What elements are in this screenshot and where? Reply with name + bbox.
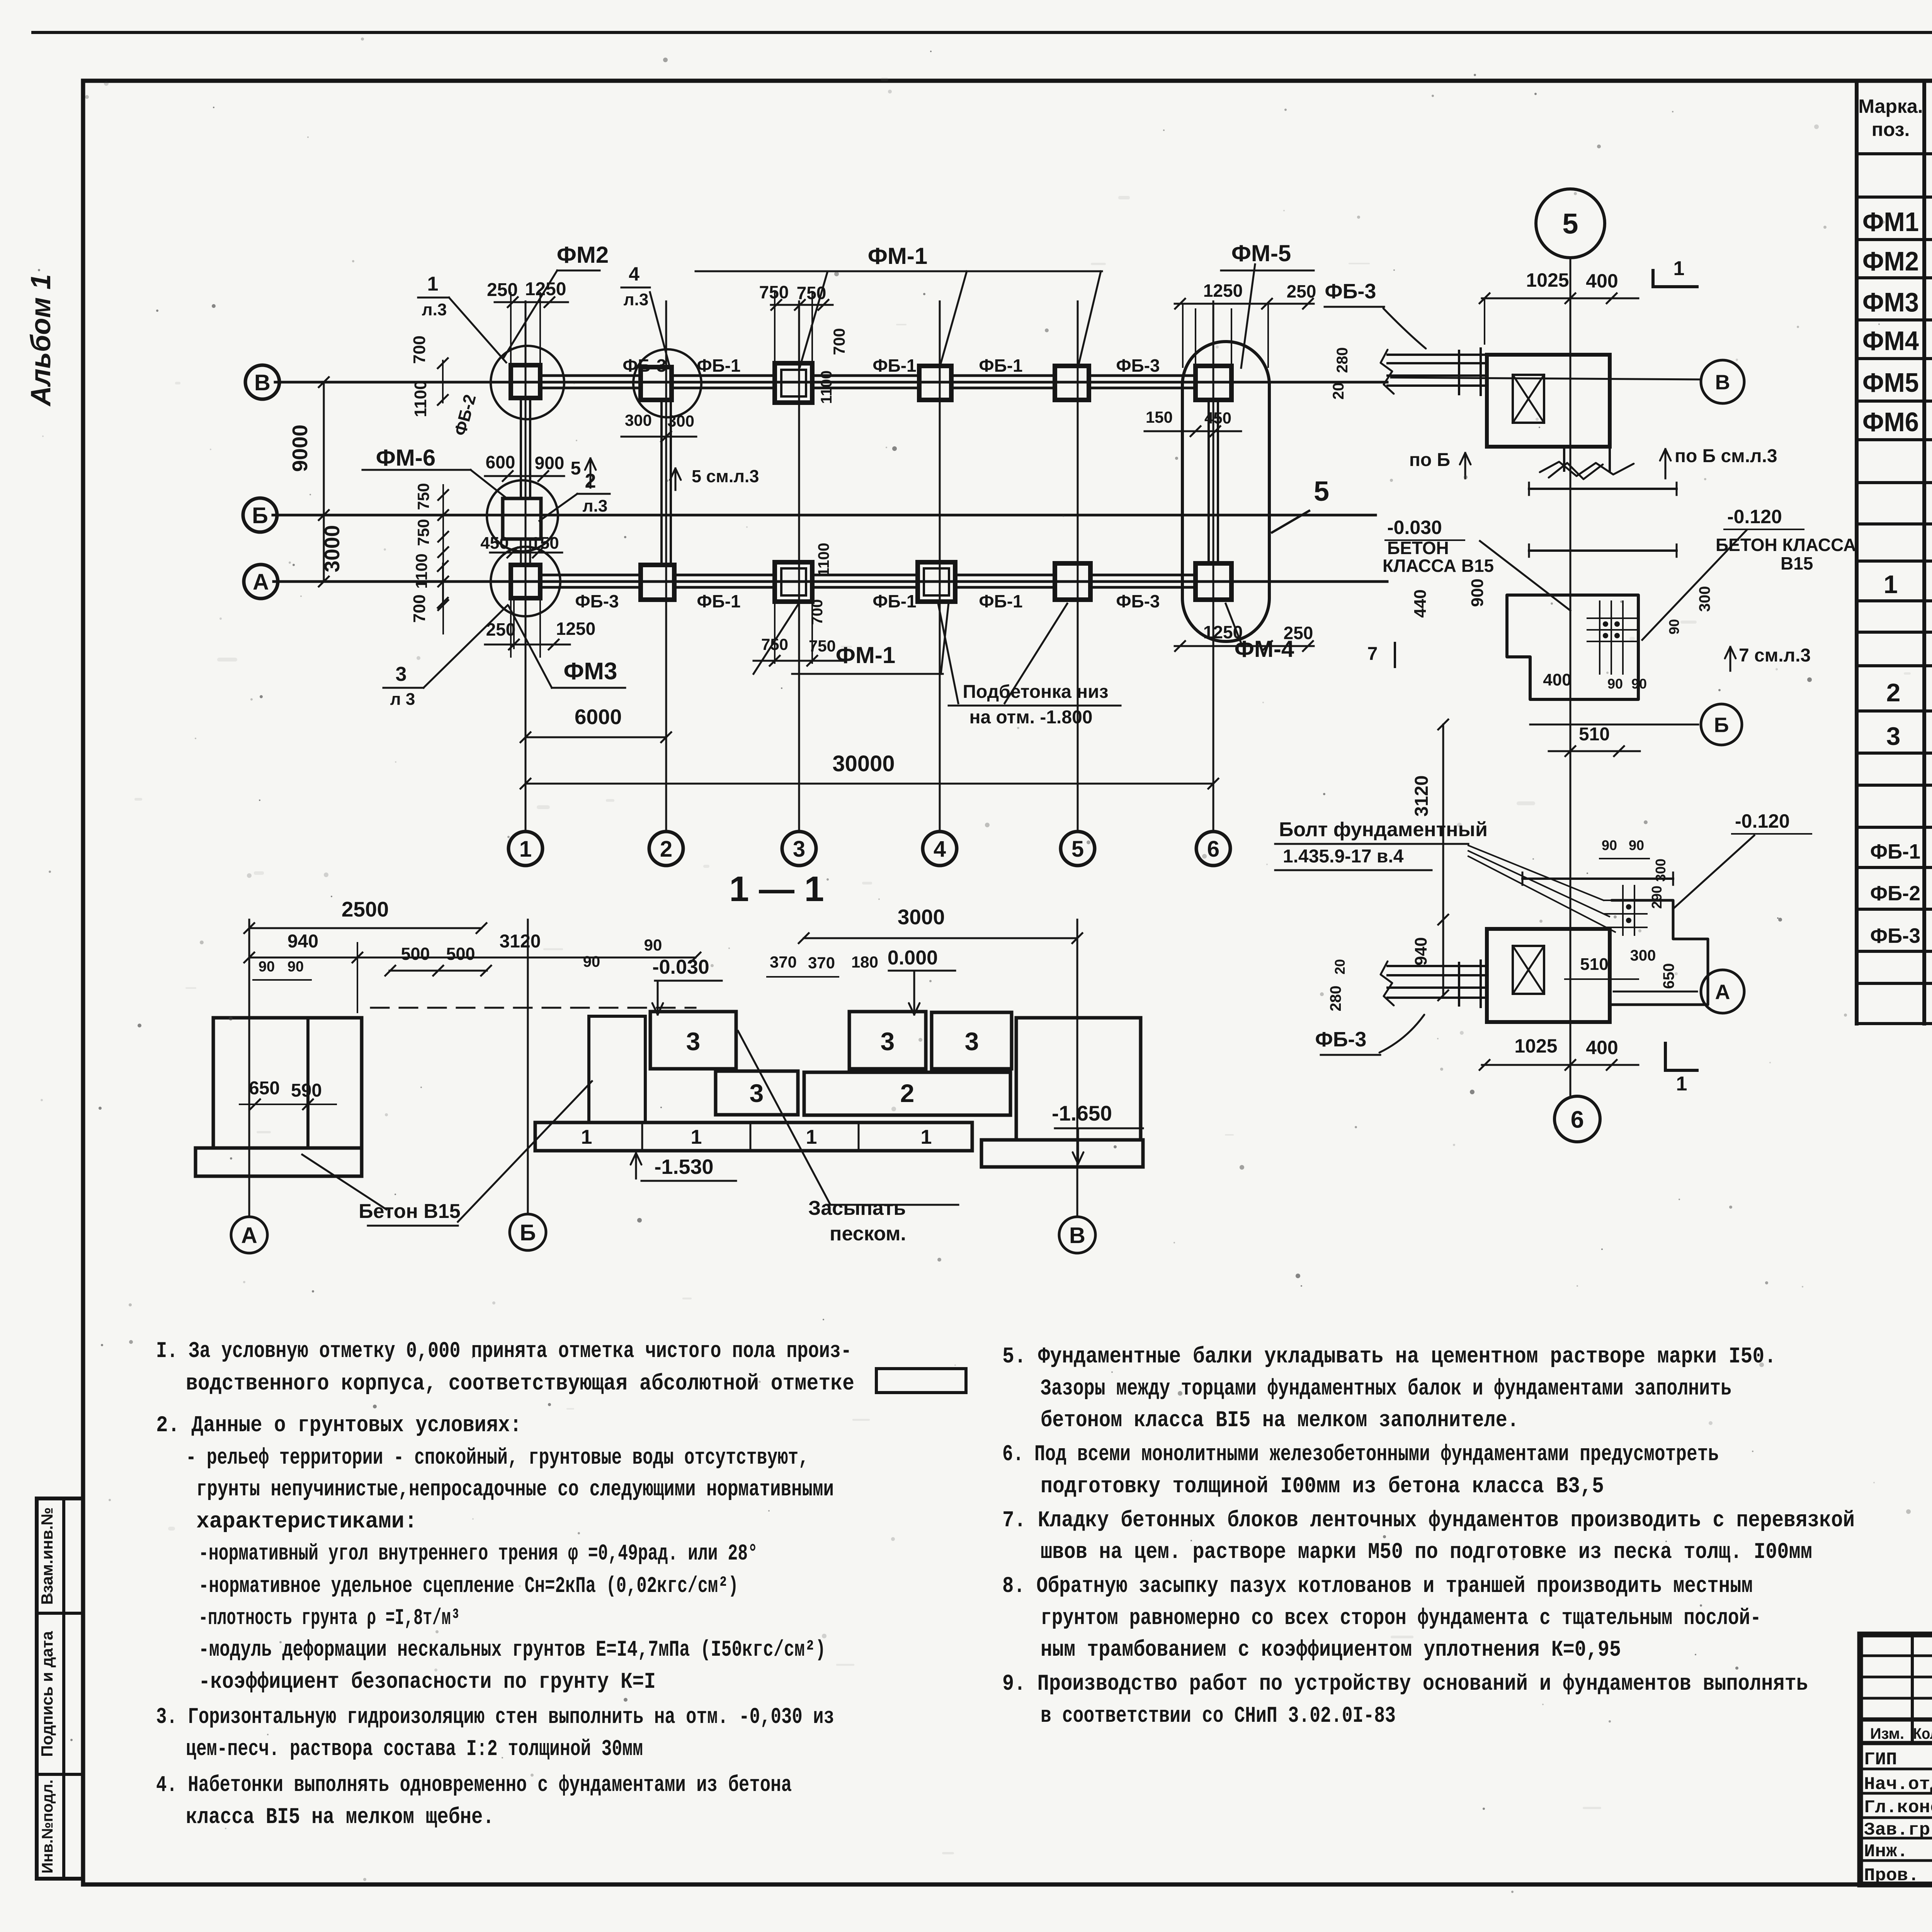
svg-text:7: 7 <box>1367 644 1378 664</box>
svg-text:7. Кладку бетонных блоков лент: 7. Кладку бетонных блоков ленточных фунд… <box>1002 1508 1855 1533</box>
svg-text:4. Набетонки выполнять одновре: 4. Набетонки выполнять одновременно с фу… <box>156 1773 792 1798</box>
svg-text:Б: Б <box>252 503 268 528</box>
svg-text:3120: 3120 <box>500 931 541 952</box>
svg-text:ФБ-1: ФБ-1 <box>872 355 916 376</box>
svg-text:А: А <box>253 570 269 595</box>
svg-text:90: 90 <box>1607 676 1623 692</box>
svg-text:3: 3 <box>686 1027 701 1056</box>
svg-text:750: 750 <box>761 635 788 653</box>
svg-text:90: 90 <box>287 959 304 975</box>
svg-text:700: 700 <box>410 594 429 622</box>
svg-text:песком.: песком. <box>830 1223 906 1245</box>
svg-text:590: 590 <box>291 1080 322 1101</box>
svg-text:2: 2 <box>900 1079 915 1107</box>
svg-text:ФБ-1: ФБ-1 <box>697 355 740 376</box>
svg-text:БЕТОН КЛАССА: БЕТОН КЛАССА <box>1716 535 1856 555</box>
svg-text:водственного корпуса, соответс: водственного корпуса, соответствующая аб… <box>186 1371 854 1396</box>
svg-text:класса ВI5 на мелком щебне.: класса ВI5 на мелком щебне. <box>186 1805 494 1830</box>
svg-text:7 см.л.3: 7 см.л.3 <box>1739 645 1811 666</box>
svg-text:-нормативное удельное сцеплени: -нормативное удельное сцепление Сн=2кПа … <box>199 1574 738 1599</box>
svg-text:1: 1 <box>1673 257 1685 280</box>
svg-text:-0.030: -0.030 <box>652 956 709 978</box>
svg-text:ФБ-3: ФБ-3 <box>575 591 619 611</box>
svg-text:1025: 1025 <box>1514 1035 1557 1057</box>
svg-text:500: 500 <box>401 944 430 964</box>
svg-text:л.3: л.3 <box>583 497 608 515</box>
svg-text:940: 940 <box>1412 937 1430 965</box>
svg-text:700: 700 <box>809 599 826 625</box>
svg-text:по Б см.л.3: по Б см.л.3 <box>1675 446 1777 466</box>
svg-text:А: А <box>241 1223 257 1248</box>
svg-text:ФМ-6: ФМ-6 <box>376 445 436 471</box>
svg-text:В: В <box>1715 371 1730 394</box>
svg-text:поз.: поз. <box>1872 119 1910 140</box>
svg-text:ФМ3: ФМ3 <box>1862 287 1919 317</box>
svg-text:300: 300 <box>667 412 694 430</box>
svg-text:ФБ-3: ФБ-3 <box>1116 591 1160 611</box>
svg-text:Зав.гр.: Зав.гр. <box>1864 1820 1932 1840</box>
svg-text:750: 750 <box>809 637 836 655</box>
svg-text:КЛАССА В15: КЛАССА В15 <box>1383 556 1494 576</box>
svg-text:90: 90 <box>644 936 662 954</box>
svg-text:1: 1 <box>1884 570 1898 599</box>
svg-text:300: 300 <box>1653 859 1668 882</box>
svg-text:3: 3 <box>750 1079 764 1107</box>
svg-text:510: 510 <box>1580 955 1608 974</box>
svg-text:Взам.инв.№: Взам.инв.№ <box>38 1507 56 1605</box>
svg-text:290: 290 <box>1649 886 1665 909</box>
svg-text:1100: 1100 <box>411 380 430 417</box>
svg-text:750: 750 <box>414 519 432 546</box>
svg-text:ФМ-5: ФМ-5 <box>1231 240 1291 266</box>
svg-text:Альбом 1: Альбом 1 <box>26 274 56 406</box>
svg-text:900: 900 <box>1468 578 1487 607</box>
svg-text:по Б: по Б <box>1409 450 1450 470</box>
svg-text:Изм.: Изм. <box>1870 1725 1904 1742</box>
svg-text:5 см.л.3: 5 см.л.3 <box>692 466 759 486</box>
svg-text:1250: 1250 <box>556 619 595 639</box>
svg-text:в соответствии со СНиП 3.02.0I: в соответствии со СНиП 3.02.0I-83 <box>1041 1704 1396 1729</box>
svg-text:6: 6 <box>1571 1106 1584 1133</box>
svg-text:ФБ-3: ФБ-3 <box>1315 1028 1367 1051</box>
svg-text:900: 900 <box>535 453 565 473</box>
svg-text:400: 400 <box>1586 1037 1618 1058</box>
svg-text:Б: Б <box>1714 713 1729 736</box>
svg-text:ФМ4: ФМ4 <box>1862 326 1919 356</box>
svg-text:280: 280 <box>1334 347 1351 373</box>
svg-text:на отм. -1.800: на отм. -1.800 <box>969 707 1093 728</box>
svg-text:3120: 3120 <box>1412 776 1432 817</box>
svg-text:-1.530: -1.530 <box>654 1155 713 1179</box>
svg-text:характеристиками:: характеристиками: <box>196 1509 417 1534</box>
svg-text:швов на цем. растворе марки М5: швов на цем. растворе марки М50 по подго… <box>1041 1540 1812 1565</box>
svg-text:250: 250 <box>487 280 518 300</box>
svg-text:подготовку толщиной I00мм из б: подготовку толщиной I00мм из бетона клас… <box>1041 1474 1604 1499</box>
svg-text:-0.120: -0.120 <box>1727 506 1782 527</box>
svg-text:9. Производство работ по устро: 9. Производство работ по устройству осно… <box>1002 1672 1808 1697</box>
svg-text:250: 250 <box>1287 281 1316 301</box>
svg-text:Б: Б <box>520 1220 536 1245</box>
svg-text:440: 440 <box>1411 589 1430 617</box>
svg-text:500: 500 <box>446 944 475 964</box>
svg-text:цем-песч. раствора состава I:: цем-песч. раствора состава I:2 толщиной … <box>186 1737 643 1762</box>
svg-text:20: 20 <box>1330 383 1347 400</box>
svg-text:ФБ-1: ФБ-1 <box>697 591 740 611</box>
svg-text:3: 3 <box>396 663 407 685</box>
svg-text:В: В <box>254 370 270 395</box>
svg-text:30000: 30000 <box>832 751 895 776</box>
svg-text:5: 5 <box>1071 837 1084 862</box>
svg-text:3: 3 <box>1886 722 1901 750</box>
svg-text:750: 750 <box>759 282 789 302</box>
svg-text:л.3: л.3 <box>624 290 649 309</box>
svg-text:2: 2 <box>660 837 672 862</box>
svg-text:ФБ-3: ФБ-3 <box>622 355 666 376</box>
svg-text:Гл.конс: Гл.конс <box>1864 1798 1932 1818</box>
svg-text:1: 1 <box>921 1126 932 1148</box>
svg-text:л.3: л.3 <box>422 300 447 319</box>
svg-text:бетоном класса ВI5 на мелком з: бетоном класса ВI5 на мелком заполнителе… <box>1041 1408 1519 1433</box>
svg-text:150: 150 <box>1146 408 1173 426</box>
svg-text:3: 3 <box>965 1027 979 1056</box>
svg-text:ФМ1: ФМ1 <box>1862 207 1919 237</box>
svg-text:940: 940 <box>287 931 318 952</box>
svg-text:20: 20 <box>1332 959 1348 975</box>
svg-text:Зазоры между торцами фундамент: Зазоры между торцами фундаментных балок … <box>1041 1376 1731 1401</box>
svg-text:1100: 1100 <box>818 371 835 404</box>
svg-text:90: 90 <box>1666 619 1682 634</box>
svg-text:400: 400 <box>1543 670 1571 689</box>
svg-text:ФБ-1: ФБ-1 <box>979 355 1022 376</box>
svg-text:БЕТОН: БЕТОН <box>1387 538 1449 558</box>
svg-text:л 3: л 3 <box>390 690 415 709</box>
svg-text:1: 1 <box>519 837 532 862</box>
svg-text:- рельеф территории - спокойны: - рельеф территории - спокойный, грунтов… <box>186 1446 809 1471</box>
svg-text:300: 300 <box>1696 586 1713 612</box>
svg-text:370: 370 <box>770 953 797 971</box>
svg-text:750: 750 <box>414 483 432 510</box>
svg-text:90: 90 <box>1629 837 1644 853</box>
svg-text:3000: 3000 <box>898 905 945 929</box>
svg-text:-модуль деформации нескальных: -модуль деформации нескальных грунтов Е=… <box>199 1638 826 1663</box>
svg-text:2. Данные о грунтовых условиях: 2. Данные о грунтовых условиях: <box>156 1413 522 1438</box>
svg-text:6. Под всеми монолитными желез: 6. Под всеми монолитными железобетонными… <box>1002 1442 1719 1467</box>
svg-text:450: 450 <box>1204 409 1231 427</box>
svg-text:6: 6 <box>1207 837 1219 862</box>
svg-text:2: 2 <box>1886 678 1901 707</box>
svg-text:ФБ-1: ФБ-1 <box>1870 840 1920 863</box>
svg-text:90: 90 <box>259 959 275 975</box>
svg-text:ФМ-1: ФМ-1 <box>868 243 928 269</box>
svg-text:-коэффициент безопасности по г: -коэффициент безопасности по грунту К=I <box>199 1670 656 1695</box>
svg-text:650: 650 <box>1660 963 1677 989</box>
svg-text:1250: 1250 <box>1203 281 1243 301</box>
svg-text:-1.650: -1.650 <box>1052 1101 1112 1125</box>
svg-text:ФБ-2: ФБ-2 <box>1870 882 1920 905</box>
svg-text:I. За условную отметку 0,000 п: I. За условную отметку 0,000 принята отм… <box>156 1339 852 1364</box>
svg-text:3000: 3000 <box>320 525 344 572</box>
svg-text:400: 400 <box>1586 270 1618 292</box>
svg-text:ГИП: ГИП <box>1864 1750 1897 1770</box>
svg-text:грунтом равномерно со всех сто: грунтом равномерно со всех сторон фундам… <box>1041 1606 1761 1631</box>
svg-text:1.435.9-17 в.4: 1.435.9-17 в.4 <box>1283 846 1404 867</box>
svg-text:В15: В15 <box>1781 553 1813 573</box>
svg-text:750: 750 <box>797 283 827 303</box>
svg-text:1: 1 <box>1676 1073 1687 1095</box>
svg-text:370: 370 <box>808 954 835 972</box>
svg-text:2500: 2500 <box>342 897 389 921</box>
svg-text:1: 1 <box>806 1126 817 1148</box>
svg-text:3: 3 <box>793 837 805 862</box>
svg-text:700: 700 <box>830 328 848 355</box>
svg-text:1 — 1: 1 — 1 <box>729 869 824 909</box>
svg-text:Пров.: Пров. <box>1864 1866 1919 1886</box>
svg-text:90: 90 <box>1631 676 1647 692</box>
svg-text:Подпись и дата: Подпись и дата <box>38 1631 56 1757</box>
svg-text:ФМ2: ФМ2 <box>1862 246 1919 276</box>
svg-text:450: 450 <box>480 534 509 553</box>
svg-text:1: 1 <box>581 1126 592 1148</box>
svg-text:1: 1 <box>691 1126 702 1148</box>
svg-text:Бетон В15: Бетон В15 <box>359 1200 460 1223</box>
svg-text:4: 4 <box>934 837 946 862</box>
svg-text:90: 90 <box>1602 837 1617 853</box>
svg-text:ФМ6: ФМ6 <box>1862 407 1919 437</box>
svg-text:Инв.№подл.: Инв.№подл. <box>39 1779 56 1873</box>
svg-text:-плотность грунта ρ =I,8т/м³: -плотность грунта ρ =I,8т/м³ <box>199 1606 460 1631</box>
svg-text:5. Фундаментные балки укладыва: 5. Фундаментные балки укладывать на цеме… <box>1002 1344 1776 1369</box>
svg-text:Засыпать: Засыпать <box>808 1197 906 1219</box>
svg-text:5: 5 <box>1562 208 1578 240</box>
svg-text:ФБ-3: ФБ-3 <box>1116 355 1160 376</box>
svg-text:-0.030: -0.030 <box>1387 517 1442 538</box>
svg-text:3: 3 <box>881 1027 895 1056</box>
svg-text:ФМ-4: ФМ-4 <box>1235 636 1294 662</box>
svg-text:510: 510 <box>1579 724 1610 745</box>
svg-text:300: 300 <box>1630 947 1656 964</box>
svg-text:А: А <box>1715 980 1730 1003</box>
svg-text:0.000: 0.000 <box>888 947 938 969</box>
svg-text:300: 300 <box>625 411 652 429</box>
svg-text:650: 650 <box>249 1078 280 1099</box>
svg-text:В: В <box>1069 1223 1085 1248</box>
svg-text:-нормативный угол внутреннего: -нормативный угол внутреннего трения φ =… <box>199 1541 758 1566</box>
svg-text:5: 5 <box>571 458 581 479</box>
svg-text:ФМ3: ФМ3 <box>563 658 617 685</box>
svg-text:Подбетонка низ: Подбетонка низ <box>963 682 1109 702</box>
svg-text:ным трамбованием с коэффициент: ным трамбованием с коэффициентом уплотне… <box>1041 1638 1621 1663</box>
svg-text:150: 150 <box>531 534 559 553</box>
svg-text:700: 700 <box>410 335 429 364</box>
svg-text:ФБ-1: ФБ-1 <box>872 591 916 611</box>
svg-text:1025: 1025 <box>1526 269 1569 291</box>
svg-text:1100: 1100 <box>412 553 430 588</box>
svg-text:6000: 6000 <box>575 705 622 729</box>
svg-text:1100: 1100 <box>815 543 832 577</box>
svg-text:Колич: Колич <box>1913 1725 1932 1742</box>
svg-text:ФБ-3: ФБ-3 <box>1870 924 1920 947</box>
svg-text:1: 1 <box>427 273 439 295</box>
svg-text:Нач.отд: Нач.отд <box>1864 1774 1932 1794</box>
svg-text:180: 180 <box>851 953 878 971</box>
svg-text:Марка.: Марка. <box>1858 95 1923 117</box>
svg-text:грунты непучинистые,непросадоч: грунты непучинистые,непросадочные со сле… <box>196 1477 834 1502</box>
svg-text:4: 4 <box>629 263 639 285</box>
svg-text:90: 90 <box>583 953 600 970</box>
svg-text:5: 5 <box>1314 476 1329 507</box>
svg-text:Болт фундаментный: Болт фундаментный <box>1279 818 1488 841</box>
svg-text:ФБ-1: ФБ-1 <box>979 591 1022 611</box>
svg-text:-0.120: -0.120 <box>1735 810 1790 832</box>
svg-text:ФМ2: ФМ2 <box>557 242 609 268</box>
svg-text:ФМ5: ФМ5 <box>1862 367 1919 398</box>
svg-text:280: 280 <box>1327 986 1344 1012</box>
svg-text:ФБ-3: ФБ-3 <box>1325 280 1376 303</box>
svg-text:600: 600 <box>486 452 515 472</box>
svg-text:8. Обратную засыпку пазух котл: 8. Обратную засыпку пазух котлованов и т… <box>1002 1574 1753 1599</box>
svg-text:9000: 9000 <box>288 425 312 472</box>
svg-text:3. Горизонтальную гидроизоляц: 3. Горизонтальную гидроизоляцию стен вып… <box>156 1705 834 1730</box>
svg-text:Инж.: Инж. <box>1864 1842 1908 1862</box>
